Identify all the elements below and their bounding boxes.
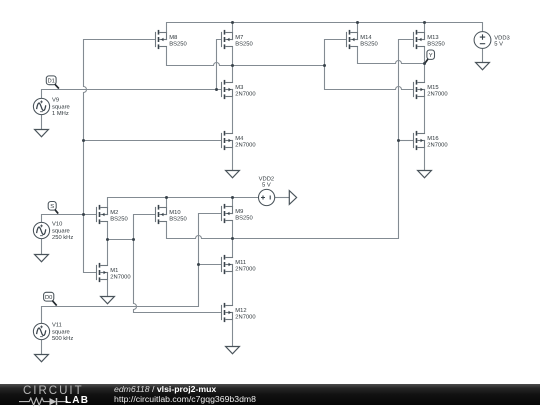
- ground (V9): [35, 130, 49, 137]
- svg-text:M14: M14: [360, 35, 372, 41]
- svg-text:2N7000: 2N7000: [110, 274, 130, 281]
- NMOS transistor M12 2N7000: [222, 303, 256, 322]
- wire V9 negative lead: [41, 115, 43, 130]
- svg-text:square: square: [52, 229, 70, 235]
- svg-text:BS250: BS250: [110, 216, 127, 223]
- NMOS transistor M11 2N7000: [222, 255, 256, 274]
- svg-text:2N7000: 2N7000: [235, 314, 255, 321]
- PMOS transistor M10 BS250: [156, 205, 187, 224]
- svg-text:M13: M13: [427, 34, 438, 41]
- ground (M12 source): [226, 347, 240, 354]
- svg-text:M2: M2: [110, 209, 118, 216]
- wire M7 gate to D1 line: [217, 40, 222, 90]
- ground (VDD3): [476, 63, 490, 70]
- node flag D1: [46, 76, 56, 85]
- wire M10 source lead: [166, 198, 168, 208]
- PMOS transistor M2 BS250: [97, 205, 128, 224]
- wire D1 input line: [42, 90, 222, 99]
- wire select S line (M8/M4/M2/M1 gates): [84, 40, 156, 273]
- svg-text:M15: M15: [427, 85, 438, 91]
- wire M4 source to ground: [232, 148, 234, 171]
- wire M15 source to M16 drain: [424, 97, 426, 134]
- svg-text:BS250: BS250: [169, 216, 186, 223]
- svg-text:M4: M4: [235, 136, 244, 142]
- wire M11 drain lead: [232, 239, 234, 258]
- svg-text:2N7000: 2N7000: [427, 91, 447, 98]
- svg-text:M12: M12: [235, 307, 246, 314]
- svg-text:M3: M3: [235, 84, 243, 91]
- wire VDD2 negative lead: [275, 197, 290, 199]
- svg-text:5 V: 5 V: [262, 183, 271, 189]
- NMOS transistor M16 2N7000: [414, 131, 448, 150]
- PMOS transistor M7 BS250: [222, 30, 253, 49]
- CircuitLab logo: [23, 384, 103, 405]
- svg-text:square: square: [52, 105, 70, 111]
- svg-text:M1: M1: [110, 268, 118, 274]
- voltage source V9 (square 1 MHz): [33, 98, 49, 114]
- svg-text:BS250: BS250: [427, 41, 444, 48]
- wire M7 source lead to rail: [232, 23, 234, 33]
- wire V10 negative lead: [41, 239, 43, 255]
- wire M14/M15 gate line: [325, 40, 414, 90]
- svg-text:500 kHz: 500 kHz: [52, 335, 73, 342]
- voltage source VDD3 5 V: [474, 32, 491, 49]
- wire M9 source lead: [232, 198, 234, 207]
- svg-text:BS250: BS250: [169, 41, 186, 48]
- wire M11 gate line: [199, 264, 222, 266]
- svg-text:V10: V10: [52, 221, 62, 228]
- voltage source V10 (square 250 kHz): [33, 222, 49, 238]
- wire M14 source lead to rail: [357, 23, 359, 33]
- wire Y2 net: M13 gate down, across to M10 drain: [167, 40, 414, 239]
- wire M3 drain lead: [232, 66, 234, 83]
- svg-text:Y: Y: [429, 53, 433, 59]
- wire M1 source to ground: [107, 280, 109, 297]
- svg-text:2N7000: 2N7000: [235, 266, 255, 273]
- svg-text:M11: M11: [235, 260, 246, 266]
- wire V11 negative lead: [41, 340, 43, 355]
- svg-text:BS250: BS250: [235, 41, 252, 48]
- wire S-bar line (M10/M12 gates): [134, 215, 222, 313]
- voltage source V11 (square 500 kHz): [33, 323, 49, 339]
- svg-text:2N7000: 2N7000: [235, 142, 255, 149]
- wire S input line: [42, 215, 97, 223]
- svg-text:M8: M8: [169, 34, 177, 41]
- svg-text:M7: M7: [235, 35, 243, 41]
- PMOS transistor M8 BS250: [156, 30, 187, 49]
- ground (V11): [35, 355, 49, 362]
- PMOS transistor M9 BS250: [222, 204, 253, 223]
- svg-text:2N7000: 2N7000: [427, 142, 447, 149]
- svg-text:M10: M10: [169, 209, 180, 216]
- wire M7 drain lead: [232, 47, 234, 66]
- svg-text:5 V: 5 V: [494, 41, 503, 47]
- wire M4 gate line: [84, 140, 222, 142]
- svg-text:BS250: BS250: [360, 41, 377, 48]
- NMOS transistor M1 2N7000: [97, 263, 131, 282]
- node flag S: [48, 202, 56, 211]
- wire M15 drain lead: [424, 64, 426, 83]
- wire M13 drain lead: [424, 47, 426, 64]
- ground (M1 source): [101, 297, 115, 304]
- junction dots: [231, 21, 234, 24]
- svg-text:250 kHz: 250 kHz: [52, 234, 73, 241]
- wire VDD2 rail: [108, 198, 259, 208]
- svg-text:2N7000: 2N7000: [235, 91, 255, 98]
- ground (V10): [35, 255, 49, 262]
- svg-text:V11: V11: [52, 323, 62, 329]
- wire D0 input line to M9 gate: [42, 214, 222, 324]
- voltage source VDD2 5 V: [259, 189, 275, 205]
- ground (M16 source): [418, 171, 432, 178]
- svg-text:1 MHz: 1 MHz: [52, 111, 69, 117]
- svg-text:BS250: BS250: [235, 215, 252, 222]
- PMOS transistor M13 BS250: [414, 30, 445, 49]
- NMOS transistor M15 2N7000: [414, 80, 448, 99]
- wire M9 drain lead: [232, 221, 234, 239]
- svg-text:V9: V9: [52, 97, 59, 104]
- PMOS transistor M14 BS250: [347, 30, 378, 49]
- wire M3 source to M4 drain: [232, 97, 234, 134]
- wire M8 drain to M14/M15 gate node: [167, 47, 325, 66]
- wire M2 drain to S-bar node: [108, 222, 134, 240]
- svg-text:M9: M9: [235, 208, 243, 215]
- NMOS transistor M4 2N7000: [222, 131, 256, 150]
- svg-text:VDD2: VDD2: [259, 176, 274, 183]
- wire VDD3 negative lead: [482, 48, 484, 62]
- svg-text:square: square: [52, 330, 70, 336]
- wire M16 source to ground: [424, 148, 426, 171]
- svg-text:S: S: [50, 203, 54, 210]
- wire M12 source to ground: [232, 320, 234, 347]
- svg-text:D1: D1: [47, 78, 54, 84]
- svg-text:M16: M16: [427, 135, 438, 142]
- node flag Y: [427, 50, 435, 59]
- wire M16 gate line: [399, 140, 414, 142]
- wire M13 source lead to rail: [424, 23, 426, 33]
- wire M1 drain lead: [107, 240, 109, 266]
- ground (M4 source): [226, 171, 240, 178]
- wire VDD rail (top): [167, 23, 483, 33]
- wire M14 drain to Y node: [358, 47, 425, 64]
- wire M11 source to M12 drain: [232, 272, 234, 306]
- node flag D0: [44, 292, 54, 301]
- NMOS transistor M3 2N7000: [222, 80, 256, 99]
- footer bar: [0, 384, 540, 405]
- svg-text:D0: D0: [45, 294, 52, 301]
- ground (VDD2, rotated right): [289, 191, 296, 205]
